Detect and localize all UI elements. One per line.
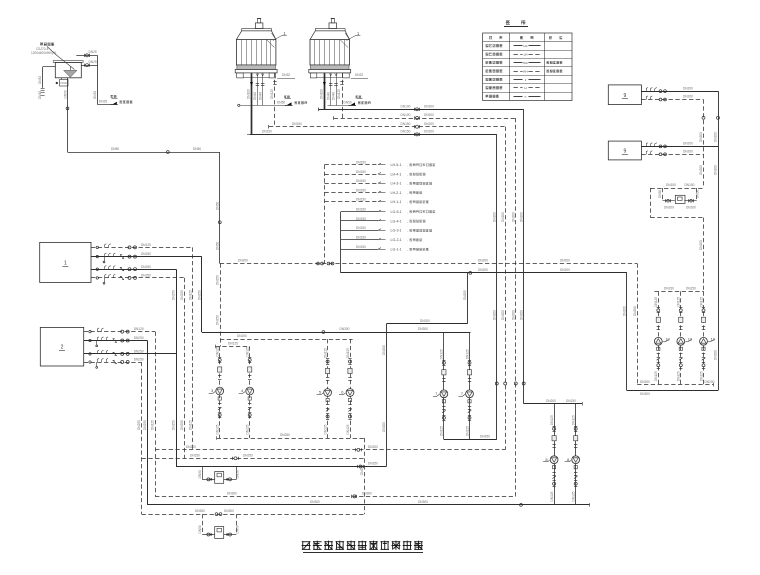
svg-text:DN125: DN125 xyxy=(465,349,469,359)
legend row n xyxy=(483,92,572,94)
unit2 pipe A (return) xyxy=(84,331,155,333)
svg-text:DN200: DN200 xyxy=(560,259,570,263)
tank float valve box xyxy=(60,80,69,87)
svg-text:DN125: DN125 xyxy=(323,424,327,434)
unit1 pipe B (supply) xyxy=(91,256,202,258)
pumps 5/6 top manifold H10 xyxy=(220,339,353,341)
hx 9a supply pipe xyxy=(641,91,718,93)
svg-text:DN200: DN200 xyxy=(714,132,718,142)
svg-text:DN250: DN250 xyxy=(180,290,184,300)
pump 10a branch xyxy=(658,291,660,384)
svg-text:DN125: DN125 xyxy=(572,415,576,425)
unit1 pipe C (cooling in) xyxy=(91,269,176,271)
link riser V21 xyxy=(386,324,388,467)
svg-text:,: , xyxy=(407,210,408,214)
svg-text:DN300: DN300 xyxy=(195,509,205,513)
hx 9a return pipe xyxy=(641,99,703,101)
expansion pipe drop to main xyxy=(219,152,221,264)
drawing title xyxy=(302,541,311,543)
CT1 return pipe down xyxy=(274,73,276,127)
cooling main H4 (CT1 supply) xyxy=(250,134,497,136)
hot supply main H22 xyxy=(147,504,589,506)
svg-text:DN125: DN125 xyxy=(216,346,220,356)
svg-text:DN125: DN125 xyxy=(550,491,554,501)
riser V16 unit2 B xyxy=(147,341,149,505)
svg-text:DN250: DN250 xyxy=(137,420,141,430)
cooling tower casing top xyxy=(310,31,350,40)
svg-text:,: , xyxy=(407,191,408,195)
riser V11 cooling-in (units) xyxy=(176,269,178,466)
svg-text:10: 10 xyxy=(665,337,670,342)
cooling tower brace xyxy=(272,33,276,40)
unit2 pipe C (cooling in) xyxy=(84,353,176,355)
svg-text:DN40: DN40 xyxy=(253,92,257,100)
svg-text:DN50: DN50 xyxy=(215,202,219,210)
svg-text:,: , xyxy=(407,238,408,242)
unit1 pipe D (cooling out) xyxy=(91,277,185,279)
svg-text:LG-5-1: LG-5-1 xyxy=(391,210,402,214)
svg-text:10: 10 xyxy=(688,337,693,342)
svg-text:DN125: DN125 xyxy=(141,243,151,247)
svg-text:DN200: DN200 xyxy=(699,165,703,175)
svg-text:DN150: DN150 xyxy=(666,183,676,187)
floor drain (CT1) xyxy=(287,102,292,105)
svg-text:DN250: DN250 xyxy=(134,336,144,340)
svg-text:DN125: DN125 xyxy=(654,297,658,307)
legend header row xyxy=(483,41,572,43)
CT2 drain pipe b xyxy=(336,73,338,106)
floor drain (tank) xyxy=(112,102,117,105)
riser valves xyxy=(495,382,498,385)
svg-text:DN250: DN250 xyxy=(141,265,151,269)
cooling tower casing top xyxy=(236,31,276,40)
svg-text:DN200: DN200 xyxy=(382,422,386,432)
legend table frame xyxy=(483,33,572,101)
tank overflow pipe to right xyxy=(76,55,97,57)
svg-text:DN50: DN50 xyxy=(696,190,700,198)
bypass frame (right) xyxy=(650,188,652,218)
svg-text:DN250: DN250 xyxy=(172,420,176,430)
tank drain pipe to right xyxy=(81,65,97,67)
tank leader line xyxy=(57,56,75,70)
cooling tower fill band xyxy=(237,65,276,69)
svg-text:DN100: DN100 xyxy=(401,105,411,109)
svg-text:,: , xyxy=(407,248,408,252)
floor drain (CT2) xyxy=(350,102,355,105)
svg-text:DN150: DN150 xyxy=(356,226,366,230)
unit2 pipe D (cooling out) xyxy=(84,362,142,364)
svg-text:DN125: DN125 xyxy=(337,89,341,99)
cooling main H1 (CT2 supply) xyxy=(318,109,523,111)
bypass top line (right box12) xyxy=(651,188,704,190)
expansion water tank xyxy=(55,62,81,77)
pump 3 branch xyxy=(219,346,221,438)
bypass run box 12 xyxy=(202,534,215,536)
svg-text:DN32: DN32 xyxy=(38,76,42,84)
CT2 return pipe down xyxy=(342,73,344,118)
pump 7b branch xyxy=(469,332,471,440)
riser V17 unit2 D xyxy=(141,362,143,514)
pump 7a branch xyxy=(443,332,445,440)
cooling tower fan motor xyxy=(255,23,263,29)
svg-text:LG-4-1: LG-4-1 xyxy=(391,219,402,223)
CT2 drain pipe a xyxy=(330,73,332,106)
svg-text:DN150: DN150 xyxy=(292,122,302,126)
svg-text:DN200: DN200 xyxy=(560,268,570,272)
svg-text:DN125: DN125 xyxy=(346,424,350,434)
svg-text:DN125: DN125 xyxy=(699,297,703,307)
east link H15 xyxy=(627,390,718,392)
branch LG-4-1 xyxy=(341,220,378,222)
legend row LG xyxy=(486,44,489,46)
svg-text:DN50: DN50 xyxy=(111,147,119,151)
east hot return riser V24 lower xyxy=(703,218,705,292)
svg-text:DN150: DN150 xyxy=(664,287,674,291)
svg-text:DN300: DN300 xyxy=(227,492,237,496)
legend row LH xyxy=(483,50,572,52)
cooling riser V10 supply CT2 xyxy=(523,109,525,403)
svg-text:DN250: DN250 xyxy=(280,433,290,437)
svg-text:,: , xyxy=(407,172,408,176)
svg-text:DN125: DN125 xyxy=(189,290,193,300)
riser V14 unit1 B xyxy=(201,257,203,332)
svg-text:DN50: DN50 xyxy=(236,470,240,478)
tank makeup pipe left xyxy=(43,66,56,68)
svg-text:DN300: DN300 xyxy=(362,492,372,496)
svg-text:DN250: DN250 xyxy=(134,358,144,362)
svg-text:DN200: DN200 xyxy=(633,306,637,316)
link main H8 xyxy=(386,323,467,325)
svg-text:LH-5-1: LH-5-1 xyxy=(391,163,402,167)
svg-text:DN100: DN100 xyxy=(401,113,411,117)
pressure valve box 13 right xyxy=(675,195,685,203)
svg-text:2: 2 xyxy=(61,345,64,351)
hx 9b supply pipe xyxy=(641,146,718,148)
cooling riser V8 return xyxy=(505,127,507,450)
chilled return main H21 xyxy=(155,496,516,498)
svg-text:DN125: DN125 xyxy=(677,297,681,307)
svg-text:DN250: DN250 xyxy=(180,420,184,430)
CT1 drain pipe b xyxy=(262,73,264,105)
svg-text:DN200: DN200 xyxy=(640,380,650,384)
legend row H xyxy=(483,83,572,85)
chilled supply main H7 xyxy=(341,272,627,274)
svg-text:DN150: DN150 xyxy=(262,130,272,134)
svg-text:LH-2-1: LH-2-1 xyxy=(391,191,402,195)
svg-text:DN125: DN125 xyxy=(677,371,681,381)
east hot supply riser V25 xyxy=(718,91,720,390)
svg-text:DN125: DN125 xyxy=(323,348,327,358)
svg-text:DN32: DN32 xyxy=(93,91,97,99)
svg-text:DN125: DN125 xyxy=(216,424,220,434)
svg-text:DN25: DN25 xyxy=(89,50,97,54)
svg-text:DN200: DN200 xyxy=(186,445,196,449)
svg-text:DN200: DN200 xyxy=(699,132,703,142)
svg-text:DN100: DN100 xyxy=(319,89,323,99)
svg-text:DN200: DN200 xyxy=(424,113,434,117)
CT1 overflow run xyxy=(277,78,295,80)
svg-text:DN250: DN250 xyxy=(134,350,144,354)
svg-text:DN200: DN200 xyxy=(424,130,434,134)
svg-text:DN150: DN150 xyxy=(356,179,366,183)
svg-text:DN300: DN300 xyxy=(224,509,234,513)
branch LG-5-1 xyxy=(341,211,378,213)
pump 10c branch xyxy=(703,291,705,384)
svg-text:DN200: DN200 xyxy=(501,310,505,320)
svg-text:DN200: DN200 xyxy=(368,445,378,449)
east riser V23 return xyxy=(637,264,639,385)
bypass legs box 11 xyxy=(202,467,204,480)
pumps 10 top manifold H13 xyxy=(655,291,704,293)
CT1 drain header xyxy=(240,105,286,107)
CT2 drain header xyxy=(328,105,350,107)
svg-text:DN125: DN125 xyxy=(189,420,193,430)
svg-text:,: , xyxy=(407,219,408,223)
svg-text:DN200: DN200 xyxy=(623,306,627,316)
svg-text:DN200: DN200 xyxy=(683,150,693,154)
svg-text:DN50: DN50 xyxy=(198,470,202,478)
box12r left leg xyxy=(662,188,664,201)
unit1 pipe A (return) xyxy=(91,247,193,249)
east hot return riser V24 upper xyxy=(703,100,705,189)
branch LG-1-1 xyxy=(341,249,378,251)
heat exchanger 9b xyxy=(608,141,641,160)
svg-text:DN200: DN200 xyxy=(686,206,696,210)
pressure valve box 11 xyxy=(215,472,224,484)
chiller unit 1 xyxy=(40,242,91,282)
svg-text:H: H xyxy=(524,86,526,90)
svg-text:DN100: DN100 xyxy=(246,89,250,99)
pressure valve box 12 xyxy=(215,527,224,539)
LG collector riser xyxy=(340,212,342,273)
legend row J xyxy=(483,75,572,77)
svg-text:DN50: DN50 xyxy=(236,525,240,533)
pumps 7 bottom manifold H17 xyxy=(444,439,497,441)
svg-text:DN125: DN125 xyxy=(346,348,350,358)
svg-text:DN200: DN200 xyxy=(683,95,693,99)
svg-text:DN300: DN300 xyxy=(640,392,650,396)
branch LH-5-1 xyxy=(325,164,379,166)
svg-text:DN25: DN25 xyxy=(89,60,97,64)
link riser V20 xyxy=(467,273,469,324)
branch LH-4-1 xyxy=(325,174,379,176)
cooling riser V7 supply xyxy=(496,134,498,439)
cooling tower fan motor xyxy=(329,23,337,29)
cooling out main H19 xyxy=(142,458,365,460)
svg-text:LG-1-1: LG-1-1 xyxy=(391,248,402,252)
pumps 10 bottom manifold H14 xyxy=(637,384,713,386)
svg-text:DN200: DN200 xyxy=(511,212,515,222)
svg-text:DN150: DN150 xyxy=(356,207,366,211)
branch LH-1-1 xyxy=(325,201,379,203)
svg-text:DN250: DN250 xyxy=(190,453,200,457)
svg-text:DN250: DN250 xyxy=(143,420,147,430)
branch LH-2-1 xyxy=(325,192,379,194)
pump 6 branch xyxy=(350,339,352,438)
svg-text:DN250: DN250 xyxy=(172,290,176,300)
svg-text:LH: LH xyxy=(524,53,528,57)
cooling tower brace xyxy=(345,33,349,40)
svg-text:DN200: DN200 xyxy=(683,142,693,146)
svg-text:LG-2-1: LG-2-1 xyxy=(391,238,402,242)
svg-text:9: 9 xyxy=(623,149,626,155)
pump 8b branch xyxy=(575,404,577,505)
svg-text:DN250: DN250 xyxy=(216,275,220,285)
svg-text:LH-1-1: LH-1-1 xyxy=(391,200,402,204)
svg-text:,: , xyxy=(407,229,408,233)
svg-text:DN200: DN200 xyxy=(705,380,715,384)
pump 5 branch xyxy=(327,339,329,438)
svg-text:LG-3-1: LG-3-1 xyxy=(391,229,402,233)
CT1 drain pipe a xyxy=(257,73,259,105)
svg-text:DN125: DN125 xyxy=(246,424,250,434)
svg-text:DN250: DN250 xyxy=(141,252,151,256)
svg-text:DN125: DN125 xyxy=(465,426,469,436)
svg-text:,: , xyxy=(407,200,408,204)
pump group feed riser xyxy=(220,264,222,347)
svg-text:DN125: DN125 xyxy=(228,342,238,346)
svg-text:DN125: DN125 xyxy=(440,349,444,359)
svg-text:DN250: DN250 xyxy=(368,462,378,466)
pumps 3/4 top manifold H11 xyxy=(216,346,250,348)
svg-text:DN150: DN150 xyxy=(356,188,366,192)
svg-text:DN300: DN300 xyxy=(418,327,428,331)
svg-text:DN200: DN200 xyxy=(664,206,674,210)
svg-text:DN200: DN200 xyxy=(492,212,496,222)
riser V15 unit2 A xyxy=(155,332,157,497)
cooling return main H18 xyxy=(155,449,505,451)
cooling in main H20 xyxy=(176,466,386,468)
cooling tower body xyxy=(310,40,350,65)
pumps 3-6 bottom manifold H16 xyxy=(217,438,365,440)
branch LG-3-1 xyxy=(341,230,378,232)
svg-text:DN50: DN50 xyxy=(63,90,67,98)
cooling tower basin xyxy=(235,69,277,73)
svg-text:DN200: DN200 xyxy=(424,122,434,126)
unit2 pipe B (supply) xyxy=(84,340,148,342)
cooling main H2 (CT2 return) xyxy=(334,118,516,120)
svg-text:DN40: DN40 xyxy=(258,92,262,100)
svg-text:DN200: DN200 xyxy=(238,259,248,263)
branch LG-2-1 xyxy=(341,239,378,241)
svg-text:DN250: DN250 xyxy=(141,274,151,278)
svg-text:KH: KH xyxy=(523,69,527,73)
pump 8a branch xyxy=(554,404,556,505)
svg-text:DN200: DN200 xyxy=(511,310,515,320)
svg-text:DN200: DN200 xyxy=(420,319,430,323)
heat exchanger 9a xyxy=(608,85,641,105)
svg-text:DN200: DN200 xyxy=(237,334,247,338)
svg-text:DN200: DN200 xyxy=(714,165,718,175)
svg-text:DN250: DN250 xyxy=(480,435,490,439)
svg-text:DN40: DN40 xyxy=(326,92,330,100)
svg-text:DN50: DN50 xyxy=(658,190,662,198)
branch LH-3-1 xyxy=(325,183,379,185)
svg-text:DN250: DN250 xyxy=(197,290,201,300)
svg-text:DN32: DN32 xyxy=(282,73,290,77)
svg-text:DN200: DN200 xyxy=(478,268,488,272)
svg-text:DN50: DN50 xyxy=(193,147,201,151)
svg-text:DN125: DN125 xyxy=(440,426,444,436)
svg-text:DN125: DN125 xyxy=(246,346,250,356)
svg-text:DN200: DN200 xyxy=(699,240,703,250)
svg-text:DN200: DN200 xyxy=(463,290,467,300)
box12r right leg xyxy=(696,188,698,201)
pump 4 branch xyxy=(249,346,251,438)
svg-text:DN125: DN125 xyxy=(270,89,274,99)
svg-text:DN200: DN200 xyxy=(519,310,523,320)
svg-text:DN200: DN200 xyxy=(546,399,556,403)
CT2 overflow run xyxy=(351,78,368,80)
bypass legs box 12 xyxy=(202,514,204,534)
unit1 drain stubs xyxy=(104,257,106,261)
svg-text:1: 1 xyxy=(64,260,67,266)
svg-text:,: , xyxy=(407,163,408,167)
svg-text:,: , xyxy=(407,182,408,186)
legend row KH xyxy=(483,66,572,68)
svg-text:DN200: DN200 xyxy=(492,310,496,320)
svg-text:DN50: DN50 xyxy=(344,101,352,105)
svg-text:DN125: DN125 xyxy=(654,371,658,381)
svg-text:DN200: DN200 xyxy=(519,212,523,222)
svg-text:DN150: DN150 xyxy=(356,170,366,174)
bypass run box 11 xyxy=(202,479,215,481)
svg-text:DN250: DN250 xyxy=(216,315,220,325)
svg-text:DN150: DN150 xyxy=(356,198,366,202)
cooling tower fill band xyxy=(311,65,350,69)
svg-text:DN200: DN200 xyxy=(424,105,434,109)
CT1 supply pipe down xyxy=(251,73,253,134)
svg-text:DN200: DN200 xyxy=(714,350,718,360)
svg-text:DN200: DN200 xyxy=(501,212,505,222)
tank expansion pipe down xyxy=(67,78,69,152)
chilled return main H6 xyxy=(220,263,637,265)
svg-text:DN150: DN150 xyxy=(356,161,366,165)
chilled supply main H9 xyxy=(202,332,471,334)
svg-text:DN150: DN150 xyxy=(401,130,411,134)
pumps 8 top manifold H12 xyxy=(524,403,582,405)
svg-text:LH-4-1: LH-4-1 xyxy=(391,172,402,176)
svg-text:DN200: DN200 xyxy=(683,86,693,90)
svg-text:DN150: DN150 xyxy=(686,287,696,291)
svg-text:DN125: DN125 xyxy=(550,415,554,425)
svg-text:DN150: DN150 xyxy=(685,183,695,187)
CT2 supply pipe down xyxy=(324,73,326,109)
svg-text:KG: KG xyxy=(523,61,528,65)
chiller unit 2 xyxy=(40,327,83,366)
legend title xyxy=(506,20,510,22)
riser V13 unit1 A xyxy=(192,247,194,449)
pump 10b branch xyxy=(680,291,682,384)
svg-text:DN300: DN300 xyxy=(418,500,428,504)
svg-text:10: 10 xyxy=(711,337,716,342)
svg-text:DN50: DN50 xyxy=(198,525,202,533)
east riser V22 supply xyxy=(626,273,628,391)
svg-text:LH-3-1: LH-3-1 xyxy=(391,182,402,186)
unit2 drain stubs xyxy=(96,341,98,345)
svg-text:DN250: DN250 xyxy=(243,453,253,457)
LH collector riser xyxy=(324,165,326,264)
svg-text:DN150: DN150 xyxy=(356,236,366,240)
svg-text:DN50: DN50 xyxy=(215,242,219,250)
svg-text:DN125: DN125 xyxy=(134,327,144,331)
svg-text:DN125: DN125 xyxy=(151,420,155,430)
svg-text:DN200: DN200 xyxy=(478,259,488,263)
riser V12 unit1 D xyxy=(184,278,186,458)
svg-text:DN150: DN150 xyxy=(401,122,411,126)
svg-text:9: 9 xyxy=(623,93,626,99)
svg-text:DN15: DN15 xyxy=(38,91,42,99)
